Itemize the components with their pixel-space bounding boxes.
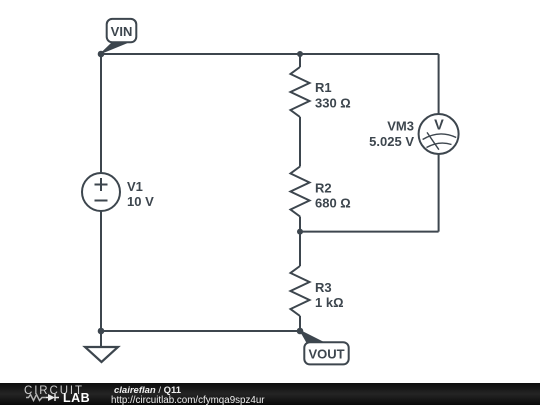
svg-text:http://circuitlab.com/cfymqa9s: http://circuitlab.com/cfymqa9spz4ur xyxy=(111,395,265,405)
svg-text:10 V: 10 V xyxy=(127,194,154,209)
wire ground lead xyxy=(100,331,102,347)
wire voltmeter bottom down xyxy=(438,154,440,232)
footer bar xyxy=(0,383,540,405)
wire R1 top lead xyxy=(299,54,301,67)
wire right branch down to voltmeter top xyxy=(438,54,440,114)
resistor R3 xyxy=(291,266,310,316)
net flag VIN xyxy=(107,19,137,42)
svg-text:LAB: LAB xyxy=(63,391,90,405)
logo resistor zigzag xyxy=(26,395,46,401)
svg-text:VIN: VIN xyxy=(111,24,133,39)
svg-text:1 kΩ: 1 kΩ xyxy=(315,295,344,310)
svg-text:VM3: VM3 xyxy=(387,119,414,134)
wire top rail VIN node to right branch xyxy=(101,53,439,55)
net flag VOUT tail xyxy=(300,331,325,343)
net flag VOUT xyxy=(304,342,348,364)
wire R3 bottom to VOUT node xyxy=(299,316,301,331)
svg-text:VOUT: VOUT xyxy=(308,346,344,361)
voltage source V1 xyxy=(82,173,120,211)
svg-text:R2: R2 xyxy=(315,181,332,196)
net flag VIN tail xyxy=(101,43,127,54)
wire R1 bottom to R2 top xyxy=(299,117,301,167)
svg-text:R3: R3 xyxy=(315,280,332,295)
svg-text:V: V xyxy=(434,118,444,134)
resistor R1 xyxy=(291,67,310,117)
svg-text:R1: R1 xyxy=(315,80,332,95)
wire mid rail from right branch to R2/R3 node xyxy=(300,231,439,233)
node VOUT junction xyxy=(297,328,304,335)
wire VIN node down to V1 top xyxy=(100,54,102,173)
wire R2 bottom lead to node xyxy=(299,217,301,232)
wire bottom rail xyxy=(101,330,300,332)
logo diode xyxy=(48,394,55,401)
node VIN junction xyxy=(98,51,105,58)
ground xyxy=(85,347,118,362)
resistor R2 xyxy=(291,167,310,217)
wire node down to R3 top xyxy=(299,232,301,266)
wire V1 bottom down to bottom rail xyxy=(100,211,102,331)
svg-text:330 Ω: 330 Ω xyxy=(315,96,351,111)
junction node at top of R1 xyxy=(297,51,303,57)
junction node R2/R3 mid rail xyxy=(297,229,303,235)
svg-text:680 Ω: 680 Ω xyxy=(315,196,351,211)
svg-text:5.025 V: 5.025 V xyxy=(369,134,414,149)
node bottom-left junction xyxy=(98,328,105,335)
voltmeter VM3 xyxy=(419,114,459,154)
svg-text:V1: V1 xyxy=(127,179,143,194)
